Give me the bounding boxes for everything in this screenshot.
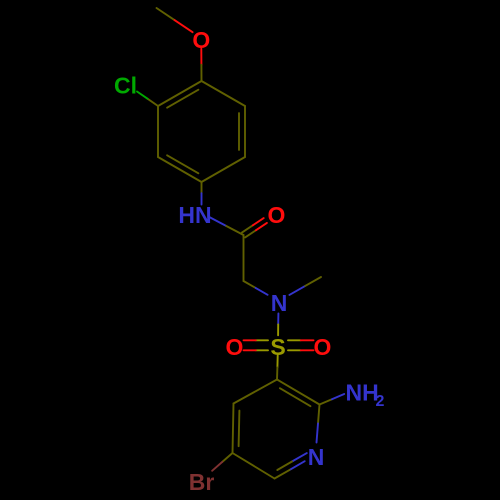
aromatic bond C6-C1: [202, 81, 246, 106]
svg-text:Cl: Cl: [114, 72, 137, 98]
svg-text:O: O: [192, 27, 210, 53]
svg-text:O: O: [314, 334, 332, 360]
svg-text:N: N: [308, 444, 325, 470]
bond S12-C3p: [276, 355, 279, 379]
aromatic bond C2-C3: [157, 106, 159, 157]
bond O-C1 (methoxy to ring): [200, 49, 202, 82]
aromatic bond C5=C6: [239, 106, 245, 157]
bond C5p-Br: [212, 453, 232, 471]
svg-text:O: O: [268, 202, 286, 228]
svg-text:NH: NH: [346, 379, 379, 405]
atom label NH2 (amino): [346, 379, 385, 410]
bond N-C7 (amide): [209, 217, 244, 235]
aromatic bond C3p=C2p: [277, 380, 320, 407]
aromatic bond C3=C4: [158, 155, 202, 182]
aromatic bond C5p=C4p: [233, 404, 240, 454]
bond N10-S12: [277, 314, 279, 336]
bond C4-N (anilide): [201, 182, 203, 205]
aromatic bond C2p-N1p: [317, 405, 320, 443]
aromatic bond N1p=C6p: [275, 453, 307, 478]
svg-text:N: N: [271, 290, 288, 316]
bond C7-C9 (CH2): [243, 235, 245, 281]
svg-text:S: S: [270, 334, 285, 360]
svg-text:HN: HN: [178, 202, 211, 228]
svg-text:O: O: [226, 334, 244, 360]
aromatic bond C4-C5: [202, 157, 246, 182]
svg-text:Br: Br: [189, 469, 215, 495]
bond C9-N10: [244, 281, 268, 295]
bond C2p-N15 (amino): [320, 394, 345, 405]
bond CH3-O (methoxy methyl): [157, 8, 193, 32]
double bond S12=O13 (sulfonyl left): [244, 340, 269, 350]
svg-text:2: 2: [376, 393, 385, 410]
aromatic bond C4p-C3p: [234, 380, 278, 404]
double bond C7=O8 (carbonyl): [242, 218, 267, 237]
double bond S12=O14 (sulfonyl right): [288, 340, 314, 350]
bond N10-C11 (N-methyl): [289, 277, 321, 295]
aromatic bond C6p-C5p: [233, 453, 275, 479]
bond C2-Cl: [137, 92, 158, 107]
aromatic bond C1=C2: [158, 81, 202, 108]
